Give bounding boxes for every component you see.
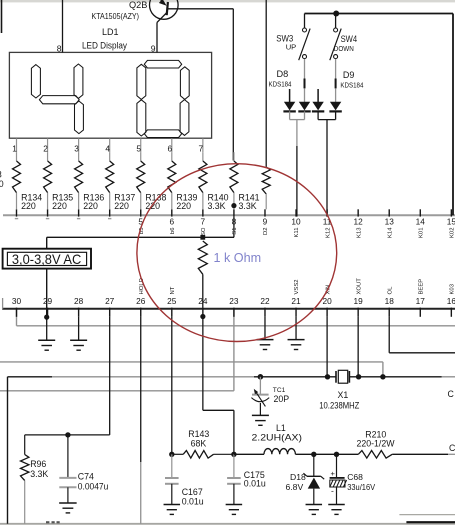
svg-text:C68: C68	[347, 472, 363, 482]
svg-text:20: 20	[322, 296, 332, 306]
svg-text:33: 33	[0, 169, 2, 179]
svg-text:D9: D9	[343, 70, 355, 80]
svg-text:14: 14	[416, 217, 426, 227]
svg-text:VSS2: VSS2	[294, 279, 300, 294]
svg-text:21: 21	[291, 296, 301, 306]
svg-text:13: 13	[385, 217, 395, 227]
svg-text:K01: K01	[418, 228, 424, 238]
svg-text:27: 27	[105, 296, 115, 306]
svg-text:2: 2	[43, 143, 48, 153]
svg-text:4: 4	[105, 143, 110, 153]
svg-text:26: 26	[136, 296, 146, 306]
svg-text:25: 25	[167, 296, 177, 306]
svg-text:K11: K11	[294, 228, 300, 238]
svg-text:0.01u: 0.01u	[244, 478, 266, 488]
svg-text:K02: K02	[450, 228, 455, 238]
svg-text:Q2B: Q2B	[129, 0, 147, 10]
svg-text:30: 30	[12, 296, 22, 306]
svg-text:6.8V: 6.8V	[286, 482, 304, 492]
svg-text:16: 16	[447, 296, 455, 306]
svg-text:220-1/2W: 220-1/2W	[357, 439, 396, 449]
svg-text:8: 8	[57, 43, 62, 53]
svg-text:2.2UH(AX): 2.2UH(AX)	[252, 432, 303, 442]
svg-text:3.3K: 3.3K	[239, 201, 257, 211]
svg-text:220: 220	[83, 201, 98, 211]
svg-text:R96: R96	[30, 459, 46, 469]
svg-text:9: 9	[263, 217, 268, 227]
svg-text:15: 15	[447, 217, 455, 227]
svg-text:19: 19	[354, 296, 364, 306]
svg-text:18: 18	[385, 296, 395, 306]
svg-text:KDS184: KDS184	[340, 80, 363, 89]
svg-text:SW4: SW4	[341, 34, 358, 44]
svg-text:33u/16V: 33u/16V	[347, 482, 375, 492]
svg-text:220: 220	[114, 201, 129, 211]
svg-text:220: 220	[21, 201, 36, 211]
svg-text:DOWN: DOWN	[334, 44, 354, 53]
svg-text:28: 28	[74, 296, 84, 306]
svg-text:D2: D2	[263, 228, 269, 236]
svg-text:220: 220	[52, 201, 67, 211]
svg-text:29: 29	[43, 296, 53, 306]
svg-text:UP: UP	[286, 42, 297, 51]
svg-text:6: 6	[167, 143, 172, 153]
svg-text:D8: D8	[277, 69, 289, 79]
svg-text:3.3K: 3.3K	[207, 201, 225, 211]
svg-text:D18: D18	[290, 472, 306, 482]
svg-text:68K: 68K	[191, 438, 207, 448]
svg-text:0.01u: 0.01u	[182, 496, 204, 506]
svg-text:3: 3	[74, 143, 79, 153]
svg-text:C: C	[449, 443, 455, 453]
svg-text:XOUT: XOUT	[356, 278, 362, 295]
svg-text:1 k Ohm: 1 k Ohm	[214, 251, 262, 265]
svg-text:KTA1505(AZY): KTA1505(AZY)	[92, 11, 140, 21]
svg-text:220: 220	[145, 201, 160, 211]
svg-text:X1: X1	[338, 390, 349, 400]
svg-text:3.3K: 3.3K	[30, 469, 48, 479]
svg-text:KDS184: KDS184	[269, 80, 292, 89]
svg-text:C: C	[448, 389, 455, 399]
svg-text:10.238MHZ: 10.238MHZ	[319, 400, 360, 410]
svg-text:K12: K12	[325, 228, 331, 238]
svg-text:-: -	[331, 486, 334, 496]
svg-text:LD1: LD1	[102, 27, 119, 37]
svg-text:BEEP: BEEP	[418, 279, 424, 295]
svg-text:S1: S1	[232, 228, 238, 235]
svg-text:17: 17	[416, 296, 426, 306]
svg-text:9: 9	[151, 43, 156, 53]
svg-text:3,0-3,8V AC: 3,0-3,8V AC	[12, 251, 81, 267]
svg-text:b6: b6	[170, 227, 176, 234]
svg-text:22: 22	[260, 296, 270, 306]
svg-text:5: 5	[136, 143, 141, 153]
svg-text:LED Display: LED Display	[82, 40, 127, 50]
svg-text:220: 220	[0, 179, 4, 189]
svg-text:0.0047u: 0.0047u	[78, 482, 109, 492]
svg-text:K03: K03	[450, 283, 455, 294]
svg-text:220: 220	[176, 201, 191, 211]
svg-text:7: 7	[201, 217, 206, 227]
svg-text:SO: SO	[201, 227, 207, 236]
svg-text:20P: 20P	[274, 394, 290, 404]
svg-text:1: 1	[12, 143, 17, 153]
svg-text:K14: K14	[387, 227, 393, 238]
svg-text:7: 7	[199, 143, 204, 153]
svg-text:NT: NT	[170, 286, 176, 294]
svg-text:12: 12	[354, 217, 364, 227]
svg-text:OL: OL	[387, 286, 393, 295]
svg-text:10: 10	[291, 217, 301, 227]
svg-text:K13: K13	[356, 227, 362, 238]
svg-text:+: +	[331, 469, 336, 478]
svg-text:6: 6	[169, 217, 174, 227]
svg-text:C74: C74	[78, 471, 94, 481]
svg-text:23: 23	[229, 296, 239, 306]
